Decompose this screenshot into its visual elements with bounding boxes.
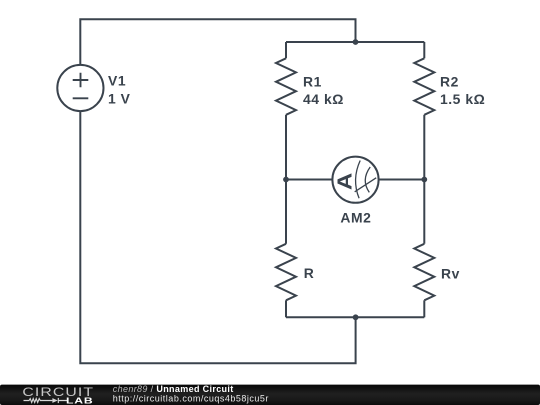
wire R2 lower lead <box>423 115 425 180</box>
svg-text:A: A <box>333 173 356 190</box>
wire bottom return: node D to V1 minus <box>80 111 355 363</box>
svg-text:http://circuitlab.com/cuqs4b58: http://circuitlab.com/cuqs4b58jcu5r <box>113 394 269 404</box>
svg-text:AM2: AM2 <box>340 210 371 226</box>
wire middle rail left (node B to ammeter) <box>286 179 332 181</box>
svg-text:1.5 kΩ: 1.5 kΩ <box>440 91 485 107</box>
wire R1 upper lead <box>285 42 287 58</box>
wire Rv lower lead <box>423 300 425 317</box>
wire middle rail right (ammeter to node C) <box>379 179 425 181</box>
ammeter AM2 body circle <box>332 157 378 203</box>
svg-text:R: R <box>304 265 315 281</box>
svg-text:Rv: Rv <box>441 265 460 281</box>
node A junction dot (top) <box>353 39 359 45</box>
ammeter AM2 scale arc inner <box>365 167 370 192</box>
node B junction dot (middle left) <box>283 177 289 183</box>
wire R2 upper lead <box>423 42 425 58</box>
ammeter AM2 scale arc outer <box>356 161 361 199</box>
resistor R1 <box>276 58 296 115</box>
wire bottom rail <box>286 316 424 318</box>
wire R upper lead <box>285 180 287 244</box>
V1 plus sign <box>73 73 89 87</box>
wire Rv upper lead <box>423 180 425 244</box>
node C junction dot (middle right) <box>421 177 427 183</box>
ammeter AM2 needle <box>355 178 377 192</box>
V1 minus sign <box>73 97 89 99</box>
svg-text:V1: V1 <box>108 73 126 89</box>
CircuitLab logo resistor-diode glyph <box>24 398 68 403</box>
svg-text:R1: R1 <box>303 74 322 90</box>
wire R lower lead <box>285 300 287 317</box>
svg-text:R2: R2 <box>440 74 459 90</box>
wire top rail <box>286 41 424 43</box>
voltage source V1 body circle <box>57 65 103 111</box>
svg-text:LAB: LAB <box>66 396 93 405</box>
node D junction dot (bottom) <box>353 314 359 320</box>
svg-text:1 V: 1 V <box>108 90 131 106</box>
svg-text:44 kΩ: 44 kΩ <box>303 91 344 107</box>
wire top loop: V1 top lead to top-right drop <box>80 19 355 65</box>
wire R1 lower lead <box>285 115 287 180</box>
resistor R2 <box>414 58 434 115</box>
resistor Rv <box>414 244 434 300</box>
resistor R <box>276 244 296 300</box>
